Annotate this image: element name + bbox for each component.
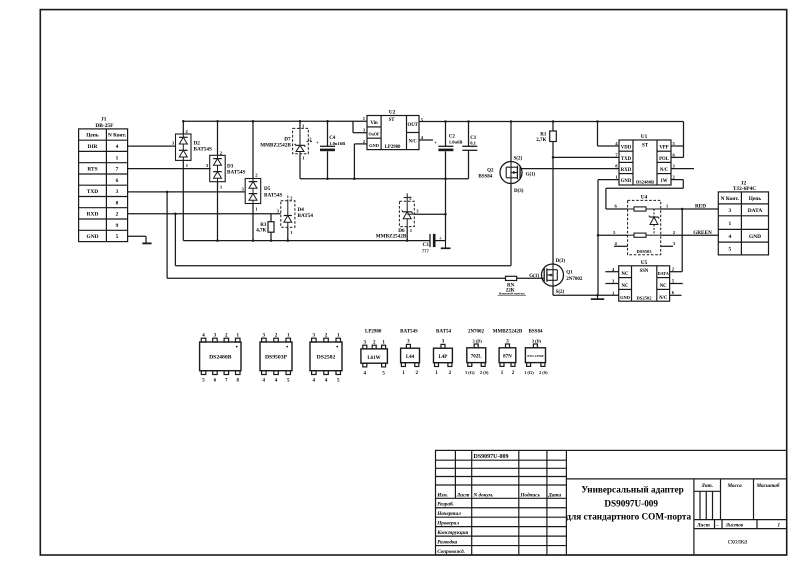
svg-text:1: 1 [116,155,119,161]
transistor Q1 2N7002 [529,259,583,295]
svg-text:3: 3 [116,189,119,195]
svg-text:OUT: OUT [407,123,418,128]
svg-text:MMBZ2542B: MMBZ2542B [376,233,407,239]
wire U1 GND [598,180,619,296]
svg-text:DIR: DIR [88,144,98,150]
svg-text:2N7002: 2N7002 [468,329,485,334]
junction dots [166,120,684,296]
wire U5 pin5 stub [670,283,683,285]
svg-text:Масса: Масса [727,483,743,489]
wire U5 pin3 stub [605,283,618,285]
wire +5V bus [419,122,684,158]
svg-text:3 (D): 3 (D) [532,339,542,344]
ic U1 DS2480B [615,134,675,185]
svg-text:Vin: Vin [370,121,378,126]
svg-text:Сопровожд.: Сопровожд. [437,548,465,555]
svg-text:Конструкция: Конструкция [436,530,468,536]
svg-text:GND: GND [621,179,632,184]
wire D7 cathode stub [299,121,301,128]
footprint 2N7002 [465,329,489,375]
svg-text:GND: GND [87,234,99,240]
svg-text:ST: ST [642,144,649,149]
svg-text:G(1): G(1) [526,172,536,177]
resistor RN [498,276,526,295]
wire U2 NC stub [419,139,433,141]
svg-text:RXD: RXD [87,212,99,218]
svg-text:BAT54S: BAT54S [227,169,245,175]
svg-text:MMBZ2542B: MMBZ2542B [260,143,291,149]
diode D4 BAT54 [277,196,314,235]
svg-text:Разраб.: Разраб. [437,500,454,507]
svg-text:LP2980: LP2980 [385,145,401,150]
svg-text:N/C: N/C [659,296,668,301]
svg-text:GND: GND [620,295,630,300]
svg-text:BAT54: BAT54 [298,213,314,219]
wire R1 top [552,122,554,132]
svg-text:2N7002: 2N7002 [566,277,583,282]
svg-text:DS2480B: DS2480B [209,355,232,361]
svg-text:U4: U4 [641,195,648,201]
memory ic U5 DS2502 [612,260,675,301]
svg-text:BAT54S: BAT54S [264,193,282,199]
svg-text:4,7K: 4,7K [256,228,266,233]
svg-text:Q1: Q1 [566,271,573,276]
svg-text:LP2980: LP2980 [365,329,382,334]
svg-text:D(3): D(3) [556,259,566,264]
wire R1 to TXD7 and Q1 drain [553,142,619,265]
svg-text:Q2: Q2 [487,169,494,174]
svg-text:Масштаб: Масштаб [756,482,780,489]
svg-text:GND: GND [369,143,379,148]
footprint BAT54S [400,329,419,376]
svg-text:DB-25F: DB-25F [95,123,114,129]
wire U4 pin3 stub [661,245,673,247]
resistor R3 [256,222,274,234]
svg-text:P2N-CH5P: P2N-CH5P [527,354,543,358]
svg-text:NC: NC [660,284,667,289]
svg-text:3: 3 [728,208,731,214]
wire C4 leads [327,121,329,178]
svg-text:9: 9 [116,223,119,229]
svg-text:Универсальный адаптер: Универсальный адаптер [581,485,683,495]
wire D4 anode [287,227,289,240]
capacitor C1 [462,136,477,151]
svg-text:L61W: L61W [367,356,380,361]
footprint DS2502 [310,334,342,384]
wire 1W net [606,180,683,209]
wire D6 pin3 [414,213,445,215]
svg-text:5: 5 [116,234,119,240]
svg-text:2,7K: 2,7K [536,138,546,143]
svg-text:DATA: DATA [658,271,669,276]
wire D6 anode [406,227,408,241]
svg-text:2 (S): 2 (S) [480,370,489,375]
svg-text:Лист: Лист [456,493,470,499]
svg-text:N докум.: N докум. [473,492,494,499]
svg-text:R1: R1 [540,132,547,137]
wire Q2 source [510,122,512,162]
footprint BAT54 [434,329,453,376]
svg-text:GREEN: GREEN [693,230,712,236]
svg-text:DS2502: DS2502 [636,296,652,301]
svg-text:777: 777 [422,248,430,253]
wire R3 leads [270,214,272,241]
wire DATA branch [670,209,683,272]
svg-text:Навесной монтаж: Навесной монтаж [499,292,525,296]
svg-text:RXD: RXD [621,168,632,173]
diode D3 BAT54S [206,150,246,189]
svg-text:VDD: VDD [621,146,632,151]
svg-text:Листов: Листов [725,523,744,529]
svg-text:N/C: N/C [660,168,669,173]
svg-text:Разводка: Разводка [437,538,457,545]
wire U2 GND [354,144,367,179]
svg-text:D5: D5 [264,186,271,192]
svg-text:Начертил: Начертил [436,511,461,517]
svg-text:Цепь: Цепь [86,133,99,139]
svg-text:DATA: DATA [748,208,763,214]
svg-text:N Конт.: N Конт. [721,196,740,202]
svg-text:4: 4 [728,234,731,240]
svg-text:+: + [434,141,438,147]
svg-text:4: 4 [116,144,119,150]
svg-text:DS9503: DS9503 [636,249,652,254]
capacitor C3 [422,234,443,254]
wire D2 cathode to VIN [182,121,184,134]
svg-text:5: 5 [728,247,731,253]
wire D2 anode to bottom bus [182,160,184,240]
svg-text:OnOF: OnOF [369,132,380,137]
footprint LP2980 [361,329,388,376]
svg-text:D(3): D(3) [514,189,524,194]
wire D3 anode [217,182,219,241]
svg-text:C4: C4 [329,136,336,141]
svg-text:RED: RED [695,204,706,210]
wire Q1 source GND line [553,286,619,295]
svg-text:POL: POL [659,157,669,162]
wire DIR [128,145,176,147]
svg-text:1.0u16B: 1.0u16B [329,141,345,146]
svg-text:L4P: L4P [438,355,447,360]
wire D5 cathode to VIN [252,121,254,178]
svg-text:Лит.: Лит. [700,483,713,489]
wire U4 pin4 stub [614,245,628,247]
svg-text:1: 1 [728,221,731,227]
svg-text:–: – [715,523,719,529]
svg-text:TXD: TXD [87,189,98,195]
svg-text:1 (G): 1 (G) [524,370,534,375]
svg-text:для стандартного COM-порта: для стандартного COM-порта [566,511,691,521]
svg-text:S(2): S(2) [556,290,565,295]
wire RED [661,208,719,210]
svg-text:DS9503P: DS9503P [265,355,288,361]
svg-text:DS9097U-009: DS9097U-009 [474,454,509,460]
svg-text:ST: ST [389,118,396,123]
transistor Q2 BSS84 [478,156,535,194]
zener D6 MMBZ2542B [376,193,420,239]
ground symbol near J1 [142,242,151,244]
svg-text:U2: U2 [389,109,396,115]
svg-text:TXD: TXD [621,157,632,162]
wire C3 right lead [435,240,445,242]
svg-text:Дата: Дата [547,493,561,499]
capacitor C4 [316,136,346,151]
svg-text:702L: 702L [471,355,483,360]
svg-text:DS2480B: DS2480B [636,179,654,184]
svg-text:8: 8 [116,200,119,206]
svg-text:87N: 87N [503,355,512,360]
svg-text:1.0u6B: 1.0u6B [449,139,463,144]
wire U5 pin6 stub [670,294,682,296]
svg-text:BSS84: BSS84 [478,175,492,180]
wire D7 anode to rail [299,154,301,179]
ground symbol mid [591,295,604,299]
diode D5 BAT54S [242,172,283,211]
footprint BSS84 [524,329,548,375]
svg-text:RTS: RTS [87,167,97,173]
wire D3 cathode to VIN [217,121,219,155]
svg-text:2 (S): 2 (S) [539,370,548,375]
diode D2 BAT54S [172,129,212,168]
zener D7 MMBZ2542B [260,121,313,160]
wire C2 leads [445,122,447,179]
wire Q2 gate to RXD8 [521,168,620,170]
svg-text:1W: 1W [660,179,667,184]
footprint DS9503P [260,334,292,384]
ground symbol under C3 [441,241,451,249]
footprint MMBZ5242B [493,329,523,376]
svg-text:J1: J1 [101,117,107,123]
wire U4 pin5 [598,234,628,236]
wire GND rail [300,178,469,180]
svg-text:BAT54: BAT54 [436,329,451,334]
svg-text:DS9097U-009: DS9097U-009 [604,499,658,509]
svg-text:Изм.: Изм. [436,493,448,499]
voltage regulator U2 LP2980 [363,109,424,149]
svg-text:0,1: 0,1 [470,140,476,145]
title block [436,450,787,555]
wire RXD [128,184,511,266]
svg-text:Цепь: Цепь [749,196,762,202]
wire RTS [128,168,211,170]
wire VIN top bus [183,121,367,132]
svg-text:BSS84: BSS84 [529,329,543,334]
resistor R1 [536,131,556,143]
wire GREEN [661,234,719,236]
svg-text:U5: U5 [641,260,648,266]
svg-text:G(1): G(1) [529,274,539,279]
svg-text:U1: U1 [641,134,648,140]
wire TXD [128,192,542,278]
svg-text:1: 1 [778,523,781,529]
svg-text:NC: NC [622,284,629,289]
svg-text:N Конт.: N Конт. [108,133,127,139]
svg-text:N/C: N/C [409,140,418,145]
wire C1 leads [468,122,470,179]
svg-text:1 (G): 1 (G) [465,370,475,375]
wire D5 anode [252,204,254,241]
wire GND J1 [128,236,146,243]
svg-text:7: 7 [116,167,119,173]
connector J2 TJ2-6P4C [718,180,768,255]
svg-text:Лист: Лист [696,523,710,529]
svg-text:6: 6 [116,178,119,184]
svg-text:DS2502: DS2502 [317,355,336,361]
wire C2 to D6 pin3 to C3 [445,179,447,241]
svg-text:MMBZ5242B: MMBZ5242B [493,329,523,334]
wire U1 NC stub [671,168,694,170]
protection ic U4 DS9503 [613,195,676,255]
svg-text:BAT54S: BAT54S [194,147,212,153]
svg-text:NC: NC [622,272,629,277]
connector J1 DB-25F [79,117,128,242]
svg-text:схолка: схолка [728,538,748,546]
svg-text:L44: L44 [406,355,415,360]
wire bottom bus [183,240,430,242]
svg-text:BAT54S: BAT54S [400,329,418,334]
svg-text:SSN: SSN [640,269,649,274]
svg-text:3 (D): 3 (D) [473,339,483,344]
capacitor C2 [434,135,463,152]
svg-text:S(2): S(2) [514,156,523,161]
svg-text:VPP: VPP [659,146,668,151]
svg-text:2: 2 [116,212,119,218]
wire U5 pin4 stub [605,271,618,273]
footprint DS2480B [200,334,241,384]
svg-text:GND: GND [749,234,761,240]
svg-text:Подпись: Подпись [519,492,540,499]
svg-text:R3: R3 [260,223,267,228]
svg-text:Проверил: Проверил [436,520,459,526]
